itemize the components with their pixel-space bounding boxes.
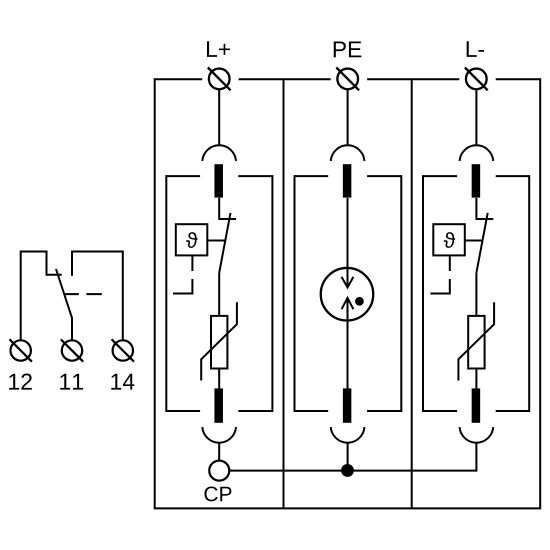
module inner box L+	[166, 176, 272, 411]
wire L+ terminal to plug contact	[218, 89, 220, 144]
terminal PE	[336, 68, 359, 91]
remote terminal 11	[61, 339, 83, 361]
remote contact: lever from terminal 11	[56, 269, 72, 340]
plug contact arc top L-	[460, 145, 494, 161]
L+ disconnector blade	[219, 213, 230, 273]
module inner box L-	[423, 176, 529, 411]
contact blade bar top PE	[343, 164, 352, 197]
label L+	[207, 41, 230, 57]
wire L- terminal to plug contact	[475, 89, 477, 144]
spark gap circle PE	[321, 268, 374, 321]
varistor L+	[201, 302, 237, 380]
link thermal box to blade L+	[208, 240, 226, 242]
plug contact arc bottom L+	[202, 427, 236, 443]
CP terminal circle	[209, 461, 229, 481]
theta symbol L+	[186, 232, 197, 248]
L- disconnector blade	[476, 213, 487, 273]
module inner box PE	[295, 176, 402, 411]
label L-	[467, 41, 484, 57]
L- wire blade to varistor	[475, 273, 477, 316]
spark gap up arrow	[342, 298, 354, 389]
remote contact: terminal 14 wire	[72, 252, 123, 341]
PE wire bar to spark gap	[347, 198, 349, 288]
L+ wire blade to varistor	[218, 273, 220, 316]
wire PE terminal to plug contact	[347, 89, 349, 144]
remote contact: terminal 12 wire	[21, 252, 62, 341]
stem L- to CP line	[229, 443, 476, 471]
label CP	[204, 487, 231, 502]
contact blade bar top L-	[472, 164, 481, 197]
L- wire bar to disconnector	[476, 198, 493, 219]
thermal element box L-	[433, 224, 465, 255]
dashed mech linkage L+	[173, 256, 192, 293]
plug contact arc top L+	[202, 145, 236, 161]
stem to junction	[347, 443, 349, 471]
remote terminal 12	[10, 339, 32, 361]
plug contact arc bottom PE	[331, 427, 365, 443]
label 14	[111, 374, 134, 390]
spark gap down arrowhead	[342, 277, 354, 288]
varistor L-	[458, 302, 494, 380]
dashed mech linkage L-	[430, 256, 449, 293]
label 11	[60, 374, 83, 390]
trigger dot inside spark gap	[355, 297, 364, 306]
thermal element box L+	[176, 224, 208, 255]
terminal L-	[465, 68, 488, 91]
link thermal box to blade L-	[465, 240, 483, 242]
theta symbol L-	[444, 232, 455, 248]
L- wire varistor to bar	[475, 369, 477, 389]
remote contact: dashed linkage	[64, 293, 102, 295]
contact blade bar top L+	[214, 164, 223, 197]
remote terminal 14	[112, 339, 134, 361]
column divider left	[283, 79, 285, 508]
label PE	[334, 42, 362, 58]
contact blade bar bottom L-	[472, 388, 481, 422]
plug contact arc bottom L-	[460, 427, 494, 443]
plug contact arc top PE	[331, 145, 365, 161]
outer enclosure box	[154, 78, 541, 509]
L+ wire varistor to bar	[218, 369, 220, 389]
terminal L+	[208, 68, 231, 91]
junction dot	[341, 464, 354, 477]
contact blade bar bottom PE	[343, 388, 352, 422]
contact blade bar bottom L+	[214, 388, 223, 422]
L+ wire bar to disconnector	[219, 198, 236, 219]
stem to CP circle	[218, 443, 220, 461]
column divider right	[411, 79, 413, 508]
label 12	[9, 374, 32, 390]
